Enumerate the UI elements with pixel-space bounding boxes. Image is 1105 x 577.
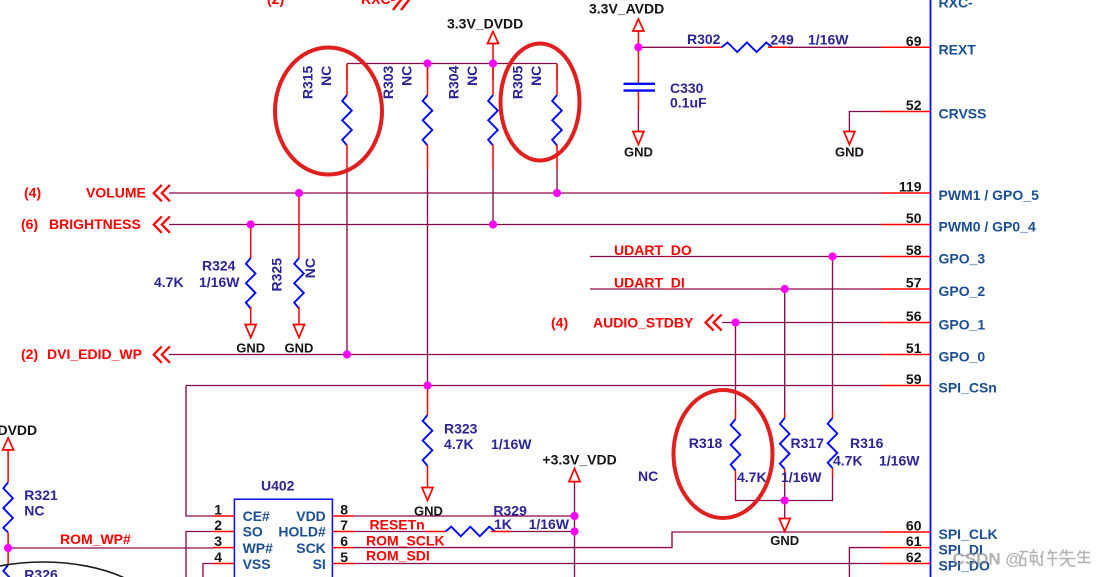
svg-text:R318: R318 (689, 435, 723, 451)
svg-text:HOLD#: HOLD# (278, 524, 326, 540)
svg-text:GPO_2: GPO_2 (939, 283, 986, 299)
port AUDIO_STDBY (551, 314, 722, 330)
svg-text:3.3V_AVDD: 3.3V_AVDD (589, 1, 664, 17)
U402 pin 5 SI (332, 563, 354, 565)
svg-text:NC: NC (24, 503, 44, 519)
svg-text:GND: GND (770, 533, 799, 548)
svg-text:249: 249 (770, 32, 794, 48)
svg-text:RXC-: RXC- (939, 0, 974, 11)
svg-text:4.7K: 4.7K (833, 452, 863, 468)
wire +3.3V_VDD vertical (574, 482, 576, 577)
wire R318 top from AUDIO_STDBY (735, 323, 737, 410)
svg-text:1: 1 (214, 502, 222, 518)
svg-text:PWM0 / GP0_4: PWM0 / GP0_4 (939, 219, 1036, 235)
svg-text:REXT: REXT (939, 41, 977, 57)
ground below R325 (285, 325, 314, 356)
svg-text:BRIGHTNESS: BRIGHTNESS (49, 216, 141, 232)
highlight ellipse around R305 (501, 44, 580, 161)
ground below R323 (414, 488, 443, 519)
capacitor C330 (624, 47, 708, 110)
resistor R318 (638, 409, 767, 485)
svg-text:58: 58 (906, 242, 922, 258)
svg-text:VDD: VDD (296, 508, 326, 524)
wire ROM_WP# net (8, 547, 213, 549)
svg-text:GPO_1: GPO_1 (939, 317, 986, 333)
wire UDART_DO net (590, 256, 881, 258)
wire GND stem below R317 junction (784, 501, 786, 519)
svg-text:NC: NC (464, 66, 480, 86)
svg-text:CSDN @: CSDN @ (953, 550, 1022, 569)
wire SPI_DI down (849, 548, 881, 577)
svg-text:NC: NC (302, 258, 318, 278)
U402 pin 7 HOLD# (332, 531, 354, 533)
power +3.3V_VDD (542, 452, 616, 482)
svg-text:ROM_SDI: ROM_SDI (366, 548, 430, 564)
net label RXC- top, cut off (267, 0, 412, 10)
svg-text:GND: GND (285, 341, 314, 356)
svg-text:ROM_WP#: ROM_WP# (60, 531, 131, 547)
svg-text:57: 57 (906, 275, 922, 291)
svg-text:RXC-: RXC- (361, 0, 396, 7)
U402 pin 6 SCK (332, 547, 354, 549)
svg-text:AUDIO_STDBY: AUDIO_STDBY (593, 314, 694, 330)
svg-text:56: 56 (906, 308, 922, 324)
svg-text:SCK: SCK (296, 540, 326, 556)
svg-text:(4): (4) (24, 185, 41, 201)
wire AUDIO_STDBY net (722, 322, 881, 324)
svg-text:GPO_0: GPO_0 (939, 349, 986, 365)
junction bus/R303 (423, 59, 431, 67)
wire R304 bottom to BRIGHTNESS (492, 170, 494, 225)
wire REXT net right (788, 46, 881, 48)
wire R303 top lead stub (427, 64, 429, 81)
pin 52 CRVSS (881, 97, 986, 122)
svg-text:GND: GND (835, 145, 864, 160)
svg-text:VOLUME: VOLUME (86, 185, 146, 201)
svg-text:RESETn: RESETn (370, 517, 425, 533)
svg-text:1/16W: 1/16W (199, 274, 240, 290)
port VOLUME (24, 185, 170, 202)
svg-text:(4): (4) (551, 314, 568, 330)
svg-text:R326: R326 (24, 567, 58, 577)
resistor R315 (300, 65, 352, 170)
junction AVDD/R302/C330 (634, 43, 642, 51)
watermark CSDN (953, 549, 1092, 569)
wire R316 top from UDART_DO (832, 257, 834, 412)
wire REXT net left (638, 46, 703, 48)
junction BRIGHTNESS/R304 (489, 220, 497, 228)
svg-text:SPI_CLK: SPI_CLK (939, 526, 998, 542)
svg-text:+3.3V_VDD: +3.3V_VDD (542, 452, 616, 468)
svg-text:50: 50 (906, 210, 922, 226)
pin 60 SPI_CLK (881, 518, 998, 543)
ground below R317 junction (770, 519, 799, 549)
svg-text:(2): (2) (21, 346, 38, 362)
svg-text:4.7K: 4.7K (154, 274, 184, 290)
svg-text:GPO_3: GPO_3 (939, 251, 986, 267)
wire BRIGHTNESS net (169, 224, 881, 226)
main IC right edge (930, 0, 932, 577)
wire C330 bottom (637, 110, 639, 132)
svg-text:PWM1 / GPO_5: PWM1 / GPO_5 (939, 187, 1040, 203)
ground below C330 (624, 132, 653, 160)
junction R317/R318/R316 GND (781, 496, 789, 504)
svg-text:R316: R316 (850, 435, 884, 451)
wire R315 top lead stub (346, 64, 348, 81)
svg-text:1/16W: 1/16W (808, 32, 849, 48)
wire R317 top from UDART_DI (784, 289, 786, 412)
svg-text:DVI_EDID_WP: DVI_EDID_WP (47, 346, 142, 362)
wire bus 3.3V_DVDD top (347, 63, 557, 65)
wire RESETn right of R329 (511, 531, 575, 533)
svg-text:NC: NC (638, 468, 658, 484)
wire R305 top lead stub (556, 64, 558, 81)
pin 56 GPO_1 (881, 308, 985, 333)
IC U402 (213, 478, 354, 577)
wire DVI_EDID_WP net (169, 354, 881, 356)
svg-text:59: 59 (906, 371, 922, 387)
wire R317 bottom (784, 480, 786, 501)
svg-text:UDART_DO: UDART_DO (614, 242, 692, 258)
wire U402 VDD row to +3.3V_VDD (354, 515, 575, 517)
svg-text:61: 61 (906, 533, 922, 549)
svg-text:CRVSS: CRVSS (939, 106, 987, 122)
wire U402 SO pin down (186, 532, 213, 577)
svg-text:60: 60 (906, 518, 922, 534)
svg-text:4.7K: 4.7K (444, 436, 474, 452)
svg-text:R324: R324 (202, 258, 236, 274)
junction VOLUME/R305 (553, 189, 561, 197)
svg-text:4: 4 (214, 549, 222, 565)
svg-text:SI: SI (313, 556, 326, 572)
svg-text:7: 7 (340, 517, 348, 533)
pin 119 PWM1/GPO_5 (881, 179, 1039, 204)
svg-text:SPI_CSn: SPI_CSn (939, 380, 997, 396)
svg-text:(2): (2) (267, 0, 284, 7)
svg-text:1/16W: 1/16W (781, 469, 822, 485)
svg-text:119: 119 (899, 179, 922, 195)
U402 pin 4 VSS (213, 563, 234, 565)
port DVI_EDID_WP (21, 346, 170, 363)
resistor R323 (423, 386, 533, 488)
svg-text:NC: NC (528, 66, 544, 86)
black highlight arc bottom-left (0, 562, 163, 577)
port BRIGHTNESS (21, 216, 170, 233)
pin 51 GPO_0 (881, 340, 985, 365)
pin 50 PWM0/GP0_4 (881, 210, 1036, 235)
svg-text:5: 5 (340, 549, 348, 565)
svg-text:62: 62 (906, 549, 922, 565)
svg-text:4.7K: 4.7K (737, 469, 767, 485)
resistor R326 (3, 548, 58, 577)
junction VOLUME/R325 (295, 189, 303, 197)
svg-text:51: 51 (906, 340, 922, 356)
svg-text:R315: R315 (300, 65, 316, 99)
resistor R317 (780, 412, 824, 485)
junction BRIGHTNESS/R324 (247, 220, 255, 228)
svg-text:52: 52 (906, 97, 922, 113)
resistor R304 (446, 65, 498, 170)
wire RESETn left of R329 (354, 531, 426, 533)
U402 pin 3 WP# (213, 547, 234, 549)
svg-text:GND: GND (236, 341, 265, 356)
svg-text:CE#: CE# (243, 508, 270, 524)
wire R304 top lead stub (492, 64, 494, 81)
U402 pin 2 SO (213, 531, 234, 533)
svg-text:8: 8 (340, 502, 348, 518)
wire R305 bottom to VOLUME (556, 170, 558, 194)
ground below CRVSS (835, 132, 864, 160)
svg-text:VSS: VSS (243, 556, 271, 572)
svg-text:2: 2 (214, 517, 222, 533)
power DVDD (3.3V_DVDD cut at left edge) (0, 422, 37, 450)
svg-text:UDART_DI: UDART_DI (614, 275, 685, 291)
svg-text:0.1uF: 0.1uF (670, 94, 707, 110)
resistor R302 (687, 31, 849, 52)
junction AUDIO_STDBY/R318 (731, 318, 739, 326)
svg-text:R323: R323 (444, 421, 478, 437)
svg-text:GND: GND (624, 145, 653, 160)
junction SPI_CSn/R303/R323 (423, 381, 431, 389)
svg-text:WP#: WP# (243, 540, 274, 556)
junction DVI_EDID_WP/R315 (343, 350, 351, 358)
resistor R303 (380, 65, 432, 170)
svg-text:SO: SO (243, 524, 263, 540)
svg-text:NC: NC (318, 66, 334, 86)
svg-text:3.3V_DVDD: 3.3V_DVDD (447, 16, 523, 32)
svg-text:1K: 1K (494, 516, 512, 532)
highlight ellipse around R315 (275, 48, 382, 175)
U402 pin 8 VDD (332, 515, 354, 517)
svg-text:1/16W: 1/16W (529, 516, 570, 532)
junction UDART_DI/R317 (781, 285, 789, 293)
wire ROM_SCLK to SPI_CLK with jog (354, 532, 881, 548)
resistor R329 (426, 503, 570, 537)
resistor R324 (154, 225, 256, 325)
ground below R324 (236, 325, 265, 356)
resistor R321 (3, 450, 58, 548)
junction bus/R304 power (489, 59, 497, 67)
pin 58 GPO_3 (881, 242, 985, 267)
svg-text:R305: R305 (510, 65, 526, 99)
U402 pin 1 CE# (213, 515, 234, 517)
wire VOLUME net (169, 192, 881, 194)
wire UDART_DI net (590, 288, 881, 290)
svg-text:R317: R317 (791, 435, 825, 451)
svg-text:U402: U402 (261, 478, 295, 494)
svg-text:R303: R303 (380, 65, 396, 99)
wire R316 bottom (785, 477, 833, 501)
svg-text:3.3V_DVDD: 3.3V_DVDD (0, 422, 37, 438)
junction VDD/+3.3V (570, 512, 578, 520)
pin 59 SPI_CSn (881, 371, 997, 396)
svg-text:ROM_SCLK: ROM_SCLK (366, 533, 445, 549)
junction ROM_WP#/R321/R326 (4, 544, 12, 552)
pin 62 SPI_DO (881, 549, 990, 574)
svg-text:3: 3 (214, 533, 222, 549)
svg-text:R304: R304 (446, 65, 462, 99)
svg-text:6: 6 (340, 533, 348, 549)
wire R318 bottom (736, 481, 785, 501)
wire SPI_CSn to U402 pin1 (186, 386, 213, 517)
highlight ellipse around R318 (674, 390, 773, 518)
wire ROM_SDI to SPI_DO (354, 563, 881, 565)
wire U402 VSS pin down (203, 564, 213, 577)
wire SPI_CSn net (186, 385, 881, 387)
resistor R316 (828, 411, 921, 477)
svg-text:1/16W: 1/16W (879, 452, 920, 468)
pin 61 SPI_DI (881, 533, 983, 558)
svg-text:69: 69 (906, 33, 922, 49)
wire R315 bottom to DVI_EDID_WP (346, 170, 348, 355)
power 3.3V_AVDD (589, 1, 664, 48)
svg-text:(6): (6) (21, 216, 38, 232)
svg-text:NC: NC (399, 66, 415, 86)
pin 69 REXT (881, 33, 976, 58)
wire R303 bottom to SPI_CSn (427, 170, 429, 386)
resistor R305 (510, 65, 562, 170)
svg-text:R302: R302 (687, 31, 721, 47)
junction UDART_DO/R316 (828, 252, 836, 260)
power 3.3V_DVDD (447, 16, 523, 64)
resistor R325 (269, 193, 319, 325)
svg-text:R321: R321 (24, 487, 58, 503)
pin 57 GPO_2 (881, 275, 985, 300)
junction RESETn/+3.3V (570, 527, 578, 535)
svg-text:1/16W: 1/16W (491, 436, 532, 452)
svg-text:R325: R325 (269, 258, 285, 292)
wire CRVSS to GND (849, 112, 881, 132)
